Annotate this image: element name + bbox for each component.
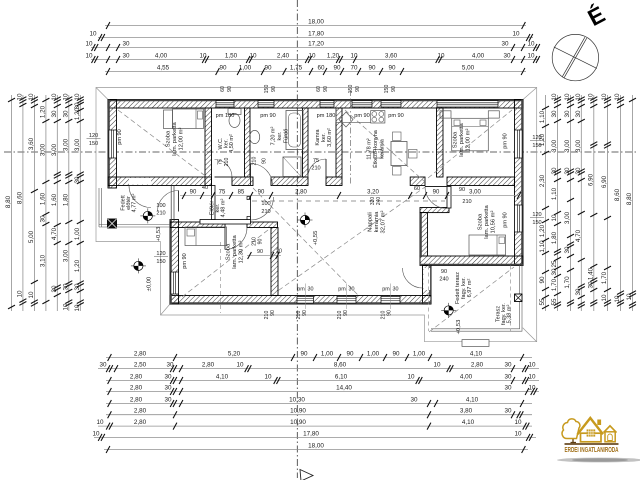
svg-text:pm 180: pm 180 — [317, 113, 336, 119]
svg-text:1,00: 1,00 — [239, 65, 252, 72]
door gap terasz — [423, 268, 430, 290]
exterior wall west — [108, 100, 117, 189]
svg-text:30: 30 — [122, 53, 130, 60]
corner sink etkezo — [339, 112, 353, 127]
svg-text:1,80: 1,80 — [62, 193, 69, 206]
wall wc / furdo — [245, 108, 251, 177]
window szoba-TR north pm90 — [437, 101, 498, 107]
exterior wall south (nappali) — [170, 296, 431, 305]
dim row 4,00 1,50 2,40 1,20 3,60 4,00 — [85, 53, 539, 64]
svg-text:10: 10 — [74, 304, 81, 312]
svg-text:90: 90 — [441, 269, 447, 275]
door wc 75/210 — [215, 160, 233, 178]
left col 4 — [39, 95, 49, 311]
svg-text:2,80: 2,80 — [130, 374, 143, 381]
section arrow bottom — [300, 470, 313, 480]
bottom dim row 4 — [106, 385, 539, 396]
label eloter — [209, 199, 226, 218]
svg-text:90: 90 — [323, 86, 329, 92]
svg-text:3,00: 3,00 — [575, 139, 582, 152]
svg-text:4,00: 4,00 — [472, 53, 485, 60]
svg-text:18,00: 18,00 — [308, 19, 324, 26]
svg-text:10: 10 — [407, 374, 415, 381]
svg-text:3,00: 3,00 — [469, 190, 481, 196]
svg-text:10: 10 — [89, 31, 97, 38]
svg-text:1,50: 1,50 — [225, 53, 238, 60]
svg-text:25: 25 — [551, 260, 558, 268]
svg-text:30: 30 — [575, 288, 582, 296]
svg-text:10: 10 — [626, 293, 633, 301]
label kamra — [315, 128, 333, 147]
exterior wall west szoba-1230 — [170, 220, 179, 305]
svg-text:90: 90 — [433, 190, 440, 196]
interior wall south of szoba-TL — [108, 177, 212, 186]
svg-text:pm: pm — [338, 287, 346, 293]
svg-text:4,10: 4,10 — [470, 351, 483, 358]
left col 5 — [51, 93, 61, 311]
roof hip dashes terasz — [429, 267, 514, 332]
svg-text:30: 30 — [564, 110, 571, 118]
svg-text:150: 150 — [156, 259, 165, 265]
window wc north pm180 — [216, 101, 234, 107]
door szoba-TL to porch 90/210 — [129, 186, 151, 208]
svg-text:pm 90: pm 90 — [354, 113, 370, 119]
svg-text:3,80: 3,80 — [460, 408, 473, 415]
svg-text:3,00: 3,00 — [62, 138, 69, 151]
svg-text:30: 30 — [51, 110, 58, 118]
svg-text:1,40: 1,40 — [587, 267, 594, 280]
bottom dim row 6 — [106, 408, 532, 419]
nightstands szoba-TR — [440, 111, 451, 118]
svg-text:+0,55: +0,55 — [313, 231, 319, 246]
svg-text:1,10: 1,10 — [539, 240, 546, 253]
terrace west edge dashed — [428, 266, 430, 332]
svg-text:10: 10 — [551, 214, 558, 222]
svg-text:10: 10 — [551, 93, 558, 101]
svg-text:5,00: 5,00 — [28, 230, 35, 243]
compass north symbol — [552, 34, 598, 80]
svg-text:40: 40 — [202, 185, 208, 191]
svg-text:60: 60 — [414, 186, 420, 192]
svg-text:2,80: 2,80 — [130, 397, 143, 404]
svg-text:30: 30 — [164, 385, 172, 392]
wall furdo / kamra — [303, 108, 309, 177]
logo erdei ingatlaniroda — [557, 418, 640, 462]
bed szoba-TR — [452, 118, 489, 151]
svg-text:18,00: 18,00 — [308, 443, 324, 450]
overhang corner miters — [96, 88, 108, 100]
svg-text:30: 30 — [164, 397, 172, 404]
wall szoba-TL / wc — [205, 108, 212, 186]
svg-text:1,10: 1,10 — [551, 187, 558, 200]
bottom dim row 1 — [106, 351, 532, 362]
left col 6 — [62, 93, 72, 311]
bed szoba-1056 — [469, 235, 506, 255]
svg-text:4,77 m²: 4,77 m² — [132, 194, 138, 213]
svg-text:2,80: 2,80 — [471, 362, 484, 369]
roof hip dashes nappali desc — [253, 188, 358, 295]
svg-text:10: 10 — [350, 53, 358, 60]
svg-text:32,07 m²: 32,07 m² — [380, 210, 386, 233]
interior wall south of furdo b — [271, 177, 308, 186]
svg-text:10: 10 — [236, 362, 244, 369]
window nappali south pm30 c — [381, 296, 400, 303]
wall szoba-1230 north east part — [247, 222, 278, 228]
svg-text:10: 10 — [308, 53, 316, 60]
window szoba-1056 east pm90 — [515, 205, 523, 232]
right col 4 — [575, 93, 585, 311]
svg-text:Szoba: Szoba — [226, 243, 232, 260]
svg-text:pm 90: pm 90 — [388, 113, 404, 119]
svg-text:2,80: 2,80 — [295, 190, 307, 196]
svg-text:1,75: 1,75 — [290, 65, 303, 72]
svg-text:10,56 m²: 10,56 m² — [490, 210, 496, 233]
interior dim chain — [180, 185, 521, 259]
vertical section axis — [296, 0, 298, 478]
svg-text:3,60: 3,60 — [385, 53, 398, 60]
svg-text:10: 10 — [514, 419, 522, 426]
door szoba-1056 90/210 — [425, 187, 447, 209]
svg-text:3,00: 3,00 — [51, 143, 58, 156]
svg-text:lam. parketta: lam. parketta — [172, 121, 178, 155]
svg-text:10: 10 — [437, 53, 445, 60]
svg-text:10: 10 — [28, 93, 35, 101]
terrace covered edge dashed — [510, 266, 512, 332]
terrace door 90/240 — [403, 268, 423, 288]
svg-text:1,20: 1,20 — [39, 105, 46, 118]
svg-text:75: 75 — [218, 159, 224, 165]
svg-text:10: 10 — [28, 291, 35, 299]
svg-text:10: 10 — [85, 53, 93, 60]
label fedett terasz — [455, 272, 473, 304]
right col 3 — [564, 93, 574, 311]
svg-text:2,80: 2,80 — [134, 408, 147, 415]
svg-text:30: 30 — [504, 374, 512, 381]
svg-text:90: 90 — [271, 86, 277, 92]
roof hip dashes nappali asc — [272, 187, 425, 295]
left col 3 — [28, 93, 38, 311]
svg-text:10: 10 — [587, 93, 594, 101]
door furdo 90/210 — [251, 164, 273, 186]
svg-text:1,60: 1,60 — [39, 192, 46, 205]
svg-text:240: 240 — [376, 197, 382, 206]
label szoba TR — [453, 122, 472, 156]
roof hip dashes szoba-TL — [118, 110, 208, 178]
left col 7 — [74, 93, 84, 312]
svg-text:2,50: 2,50 — [134, 362, 147, 369]
door width dim szoba-1230 — [247, 249, 282, 260]
label furdo — [271, 127, 290, 146]
svg-text:90: 90 — [227, 86, 233, 92]
roof hip dashes szoba-1230 — [182, 230, 268, 297]
svg-text:150: 150 — [89, 141, 98, 147]
svg-text:8,60: 8,60 — [334, 362, 347, 369]
svg-text:90: 90 — [368, 65, 376, 72]
svg-text:75: 75 — [313, 158, 319, 164]
window kamra north pm180 — [320, 101, 334, 107]
bed szoba-TL — [173, 109, 204, 129]
svg-text:120: 120 — [156, 251, 165, 257]
svg-text:3,00: 3,00 — [551, 139, 558, 152]
svg-text:3,00: 3,00 — [74, 138, 81, 151]
elevation marker nappali +0,55 — [298, 213, 313, 228]
hidden overhang edge dashed — [220, 242, 222, 313]
terrace outline — [431, 266, 522, 332]
svg-text:30: 30 — [39, 215, 46, 223]
svg-text:30: 30 — [393, 287, 399, 293]
window nappali south pm30 a — [297, 296, 314, 303]
svg-text:4,70: 4,70 — [575, 229, 582, 242]
bottom dim row 18,00 — [104, 443, 528, 454]
svg-text:Szoba: Szoba — [453, 131, 459, 148]
svg-text:10: 10 — [614, 93, 621, 101]
terrace step — [462, 340, 489, 347]
dim row 18,00 — [105, 19, 526, 30]
svg-text:90: 90 — [258, 190, 265, 196]
svg-text:1,80: 1,80 — [551, 231, 558, 244]
svg-text:12,00 m²: 12,00 m² — [178, 127, 184, 150]
svg-text:10: 10 — [16, 290, 23, 298]
svg-text:1,00: 1,00 — [367, 351, 380, 358]
door gap szoba-TL — [129, 178, 151, 185]
kitchen counter etkezo — [336, 108, 371, 122]
svg-text:6,10: 6,10 — [335, 374, 348, 381]
svg-text:3,10: 3,10 — [39, 254, 46, 267]
svg-text:pm 90: pm 90 — [503, 212, 509, 228]
svg-text:30: 30 — [62, 110, 69, 118]
svg-text:120: 120 — [532, 212, 541, 218]
interior wall south of kamra — [326, 177, 342, 186]
svg-text:30: 30 — [564, 167, 571, 175]
svg-text:5,38 m²: 5,38 m² — [507, 305, 513, 324]
svg-text:8,80: 8,80 — [5, 195, 12, 208]
svg-text:30: 30 — [410, 397, 418, 404]
svg-text:5,20: 5,20 — [228, 351, 241, 358]
stove hob etkezo — [371, 111, 385, 123]
svg-text:30: 30 — [51, 285, 58, 293]
svg-text:90: 90 — [302, 310, 308, 316]
window etkezo north pm90 b — [381, 101, 401, 107]
svg-text:210: 210 — [261, 209, 270, 215]
right col 6 — [601, 93, 611, 311]
bottom dim row 7 — [96, 419, 532, 430]
entry door 100/210 — [158, 191, 179, 212]
svg-text:2,40: 2,40 — [277, 53, 290, 60]
svg-text:lam. parketta: lam. parketta — [484, 204, 490, 238]
svg-text:60: 60 — [220, 86, 226, 92]
washbasin furdo — [250, 130, 260, 143]
right col 7 — [614, 93, 624, 311]
wall stub south-east corner — [423, 296, 432, 305]
svg-text:10: 10 — [528, 374, 536, 381]
svg-text:+0,53: +0,53 — [456, 320, 462, 335]
svg-text:6,97 m²: 6,97 m² — [467, 279, 473, 298]
svg-text:3,00: 3,00 — [564, 211, 571, 224]
svg-text:10: 10 — [249, 53, 257, 60]
svg-text:30: 30 — [504, 385, 512, 392]
svg-text:3,00: 3,00 — [564, 139, 571, 152]
svg-text:55: 55 — [539, 298, 546, 306]
bottom dim row 5 — [106, 397, 532, 408]
svg-text:+0,53: +0,53 — [156, 227, 162, 242]
svg-text:210: 210 — [311, 166, 320, 172]
right col 8 — [626, 95, 636, 311]
elevation marker terasz — [441, 303, 456, 318]
svg-text:11,78 m²: 11,78 m² — [367, 138, 373, 159]
svg-text:90: 90 — [392, 351, 400, 358]
svg-text:30: 30 — [551, 268, 558, 276]
svg-text:90: 90 — [333, 65, 341, 72]
svg-text:55: 55 — [551, 298, 558, 306]
exterior wall east — [515, 100, 524, 266]
svg-text:30: 30 — [504, 408, 512, 415]
svg-text:1,00: 1,00 — [413, 351, 426, 358]
svg-text:10: 10 — [601, 93, 608, 101]
door eloter-nappali 100/210 — [251, 197, 274, 220]
toilet wc — [228, 109, 241, 128]
svg-text:4,55: 4,55 — [157, 65, 170, 72]
svg-text:pm 90: pm 90 — [260, 113, 276, 119]
svg-text:90: 90 — [387, 310, 393, 316]
svg-text:2,80: 2,80 — [130, 385, 143, 392]
label szoba 1056 — [478, 204, 497, 238]
svg-text:90: 90 — [258, 239, 264, 245]
svg-text:10: 10 — [527, 53, 535, 60]
svg-text:2,80: 2,80 — [134, 351, 147, 358]
svg-text:pm: pm — [382, 287, 390, 293]
svg-text:210: 210 — [462, 199, 471, 205]
window szoba-TL west 120/150 — [109, 130, 117, 158]
svg-text:150: 150 — [348, 85, 354, 94]
interior wall stub 60 — [410, 177, 425, 186]
label terasz — [495, 303, 512, 325]
svg-text:4,50 m²: 4,50 m² — [229, 134, 235, 153]
partition eloter / nappali with door gap — [247, 197, 251, 200]
svg-text:8,60: 8,60 — [614, 188, 621, 201]
svg-text:Fürdő: Fürdő — [284, 129, 290, 143]
svg-text:17,80: 17,80 — [308, 31, 324, 38]
svg-text:30: 30 — [575, 110, 582, 118]
svg-text:10: 10 — [528, 362, 536, 369]
svg-text:30: 30 — [308, 287, 314, 293]
bottom dim row 3 — [106, 374, 539, 385]
svg-text:90: 90 — [257, 249, 263, 255]
svg-text:2,30: 2,30 — [539, 174, 546, 187]
svg-text:85: 85 — [238, 190, 245, 196]
svg-text:3,60: 3,60 — [28, 137, 35, 150]
svg-text:1,60: 1,60 — [51, 193, 58, 206]
svg-text:10: 10 — [74, 93, 81, 101]
wall kamra / etkezo — [336, 108, 342, 177]
svg-text:2,80: 2,80 — [202, 362, 215, 369]
left col 8,60 — [16, 93, 26, 311]
svg-text:90: 90 — [300, 351, 308, 358]
label etkezo — [367, 129, 386, 168]
svg-text:8,80: 8,80 — [626, 192, 633, 205]
svg-text:17,20: 17,20 — [308, 41, 324, 48]
door kamra 75/210 — [308, 159, 326, 177]
svg-text:4,00: 4,00 — [155, 53, 168, 60]
svg-text:pm 90: pm 90 — [503, 133, 509, 149]
svg-text:1,20: 1,20 — [74, 259, 81, 272]
roof overhang outline — [96, 88, 537, 342]
window szoba-1230 west 120/150 — [171, 272, 179, 294]
svg-text:90: 90 — [270, 310, 276, 316]
svg-text:10,90: 10,90 — [290, 408, 306, 415]
svg-text:150: 150 — [532, 220, 541, 226]
wall nappali / fedett terasz — [423, 266, 432, 296]
svg-text:20: 20 — [276, 249, 282, 255]
svg-text:30: 30 — [575, 167, 582, 175]
svg-text:100: 100 — [261, 201, 270, 207]
svg-text:100: 100 — [156, 203, 165, 209]
svg-text:lam. parketta: lam. parketta — [459, 122, 465, 156]
svg-text:10: 10 — [527, 41, 535, 48]
svg-text:60: 60 — [317, 65, 325, 72]
svg-text:60: 60 — [316, 86, 322, 92]
svg-text:1,20: 1,20 — [327, 53, 340, 60]
dim row 17,20 — [85, 41, 539, 52]
svg-text:30: 30 — [564, 246, 571, 254]
svg-text:30: 30 — [62, 283, 69, 291]
svg-text:240: 240 — [439, 277, 448, 283]
dim row 17,80 — [89, 31, 533, 42]
svg-text:4,10: 4,10 — [462, 419, 475, 426]
svg-text:210: 210 — [252, 157, 258, 166]
svg-text:1,00: 1,00 — [321, 351, 334, 358]
svg-text:3,20: 3,20 — [367, 190, 379, 196]
shower furdo — [283, 157, 301, 177]
svg-text:8,60: 8,60 — [16, 191, 23, 204]
svg-text:12,30 m²: 12,30 m² — [238, 240, 244, 263]
window etkezo north pm90 a — [352, 101, 372, 107]
svg-text:10: 10 — [528, 385, 536, 392]
svg-text:kerámia: kerámia — [374, 211, 380, 232]
svg-text:10: 10 — [575, 93, 582, 101]
svg-text:10: 10 — [16, 93, 23, 101]
svg-text:30: 30 — [166, 362, 174, 369]
wall eloter south — [200, 220, 251, 225]
bottom dim row 17,80 — [92, 430, 536, 441]
svg-text:30: 30 — [503, 53, 511, 60]
svg-text:3,60 m²: 3,60 m² — [327, 128, 333, 147]
svg-text:±0,00: ±0,00 — [147, 277, 153, 291]
exterior wall south right-wing — [420, 256, 523, 266]
svg-text:10: 10 — [433, 362, 441, 369]
svg-text:30: 30 — [551, 167, 558, 175]
svg-text:10: 10 — [92, 430, 100, 437]
svg-text:30: 30 — [504, 362, 512, 369]
svg-text:210: 210 — [156, 211, 165, 217]
dining table etkezo — [374, 132, 418, 175]
wall szoba-1230 north west part — [170, 222, 225, 228]
svg-text:kerámia: kerámia — [380, 138, 386, 159]
left col 8,80 — [5, 95, 15, 311]
right col 1 — [539, 95, 549, 311]
right col 5 — [587, 93, 597, 311]
wall etkezo / szoba-TR — [437, 108, 444, 177]
svg-text:30: 30 — [164, 374, 172, 381]
svg-text:10: 10 — [512, 31, 520, 38]
svg-text:10: 10 — [264, 374, 272, 381]
svg-text:10: 10 — [564, 93, 571, 101]
svg-text:Étkező+konyha: Étkező+konyha — [372, 129, 379, 168]
svg-text:7,20 m²: 7,20 m² — [271, 127, 277, 146]
svg-text:90: 90 — [190, 190, 197, 196]
svg-text:3,00: 3,00 — [62, 249, 69, 262]
svg-text:4,48 m²: 4,48 m² — [221, 199, 227, 218]
thin partition szoba-1056 top-left — [447, 187, 451, 209]
